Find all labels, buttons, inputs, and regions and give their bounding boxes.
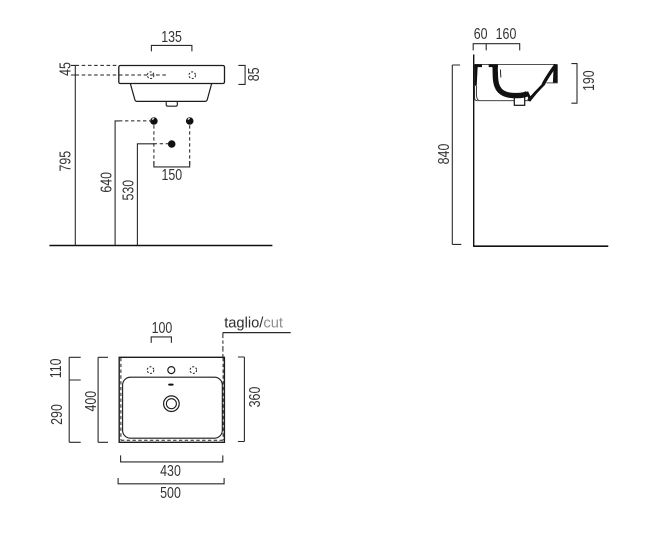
svg-text:840: 840 <box>435 143 453 164</box>
interior weir V (checkmark) <box>527 92 537 100</box>
svg-text:135: 135 <box>161 28 182 46</box>
dashed leader to left fixing hole <box>119 120 150 122</box>
cut dashed line bottom <box>121 439 223 441</box>
svg-text:530: 530 <box>119 180 137 201</box>
svg-text:400: 400 <box>82 391 100 412</box>
wall line <box>473 55 475 247</box>
svg-text:60: 60 <box>474 25 488 43</box>
bowl wall thick band <box>495 66 527 96</box>
dashed leader to drain point <box>154 143 168 145</box>
fixing hole left (filled dot) <box>150 117 158 125</box>
basin rim rect front view <box>119 66 225 84</box>
svg-text:150: 150 <box>161 166 182 184</box>
svg-text:taglio/cut: taglio/cut <box>224 316 283 332</box>
dimension 190 bracket <box>571 64 577 104</box>
dimension line 840 vertical with ticks <box>452 65 461 244</box>
dashed centerline top (rim level) <box>76 64 119 66</box>
front apron S-curve thick lower <box>528 84 544 100</box>
svg-text:500: 500 <box>160 484 181 502</box>
dimension line 530 vertical with corner <box>137 144 153 246</box>
dimension 110/290 line with ticks <box>69 357 81 442</box>
dimension 400 line with ticks <box>98 357 108 442</box>
dimension 85 bracket <box>238 65 245 84</box>
overflow channel thin edge <box>499 70 502 78</box>
svg-text:290: 290 <box>48 404 66 425</box>
svg-text:85: 85 <box>245 67 263 81</box>
svg-text:160: 160 <box>496 25 517 43</box>
back wall thick bar against wall <box>474 64 477 86</box>
drain box side view <box>514 95 524 105</box>
dimension line 640 vertical with corner <box>115 121 119 246</box>
dashed drop line from right fixing hole <box>189 125 191 167</box>
bottom thin line <box>477 100 529 102</box>
dimension 45 ticks <box>71 65 76 75</box>
fixing hole right (filled dot) <box>186 117 194 125</box>
drain inner circle <box>166 399 176 409</box>
basin body trapezoid <box>130 84 211 102</box>
svg-text:190: 190 <box>580 70 598 91</box>
ground line right <box>474 245 609 247</box>
plan faucet hole left (dashed) <box>147 367 154 374</box>
overflow slit white <box>497 70 500 78</box>
plan outer rect <box>119 357 224 442</box>
svg-text:110: 110 <box>47 358 65 378</box>
plan faucet hole right (dashed) <box>190 367 197 374</box>
svg-text:100: 100 <box>152 319 173 337</box>
plan faucet hole center (solid) <box>168 367 175 374</box>
ground line left <box>49 245 272 247</box>
svg-text:45: 45 <box>56 62 74 76</box>
svg-text:430: 430 <box>160 462 181 480</box>
dimension line 795 vertical <box>74 65 76 245</box>
drain point (filled dot) <box>168 140 176 148</box>
back hollow thin outline <box>475 86 479 101</box>
svg-text:640: 640 <box>97 172 115 193</box>
cut dashed line left <box>120 358 122 440</box>
dimension 360 line with ticks <box>238 357 245 442</box>
drain tab front view <box>166 101 177 106</box>
bowl rounded rect plan <box>123 377 223 438</box>
deck thick bar segment left <box>475 64 482 67</box>
faucet hole left (dashed circle) <box>147 72 154 79</box>
dashed centerline faucet level <box>76 74 168 76</box>
front face thick bar <box>553 64 558 83</box>
taglio leader dash-dot <box>222 333 224 358</box>
cut dashed line right <box>222 358 224 440</box>
dimension 500 bracket <box>118 478 224 484</box>
taglio underline <box>223 332 291 334</box>
deck thick bar segment right <box>489 64 498 67</box>
dimension 150 bracket <box>154 161 190 167</box>
drain outer circle <box>164 396 180 412</box>
front apron S-curve thick upper <box>543 65 556 85</box>
dashed drop line from left fixing hole <box>153 125 155 167</box>
dimension 100 bracket <box>151 337 171 343</box>
svg-text:795: 795 <box>56 151 74 172</box>
dimension 430 bracket <box>121 455 223 462</box>
dimension 135 bracket <box>151 45 192 51</box>
thin line under front rim <box>547 82 558 84</box>
overflow slot <box>168 384 173 386</box>
svg-text:360: 360 <box>245 386 263 407</box>
basin top rim thin line <box>474 64 557 66</box>
faucet hole right (dashed circle) <box>189 72 196 79</box>
dimension 60/160 bracket <box>473 44 520 51</box>
